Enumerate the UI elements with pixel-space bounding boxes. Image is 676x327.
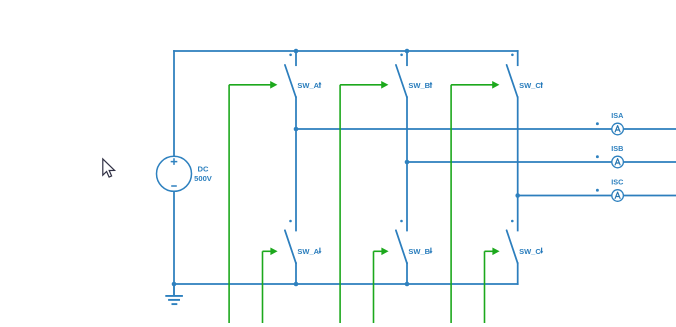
gate wire SW_B_up vertical — [339, 85, 341, 323]
svg-text:SW_C: SW_C — [519, 247, 541, 256]
wire leg C middle — [517, 97, 519, 230]
switch SW_C_up blade — [507, 65, 518, 97]
svg-text:SW_B: SW_B — [408, 247, 430, 256]
switch SW_B_up blade — [396, 65, 407, 97]
svg-text:ISC: ISC — [611, 177, 624, 186]
contact dot SW_C_down — [511, 220, 514, 223]
voltage source plus sign — [171, 158, 178, 165]
gate arrowhead SW_C_down — [492, 248, 499, 256]
gate wire SW_C_up horizontal — [451, 84, 493, 86]
svg-text:SW_A: SW_A — [297, 247, 319, 256]
gate wire SW_A_up vertical — [228, 85, 230, 323]
gate wire SW_A_up horizontal — [229, 84, 271, 86]
svg-text:ISA: ISA — [611, 111, 624, 120]
wire leg A bottom pin — [295, 263, 297, 284]
switch SW_A_up blade — [285, 65, 296, 97]
gate wire SW_C_down horizontal — [485, 250, 493, 252]
svg-text:500V: 500V — [194, 174, 213, 183]
wire bottom rail — [174, 283, 518, 285]
up-arrow glyph of label SW_B_up — [429, 82, 432, 88]
gate arrowhead SW_A_down — [270, 248, 277, 256]
gate wire SW_B_up horizontal — [340, 84, 382, 86]
svg-text:SW_C: SW_C — [519, 81, 541, 90]
wire phase B output — [407, 161, 676, 163]
contact dot SW_A_up — [289, 54, 292, 57]
switch SW_C_down blade — [507, 230, 518, 263]
ammeter ISC letter — [615, 192, 620, 198]
ground symbol — [165, 284, 183, 304]
wire leg B middle — [406, 97, 408, 230]
contact dot SW_C_up — [511, 54, 514, 57]
svg-text:DC: DC — [198, 165, 209, 174]
polarity dot ISB — [596, 155, 599, 158]
wire leg B bottom pin — [406, 263, 408, 284]
ammeter ISA letter — [615, 126, 620, 132]
gate arrowhead SW_A_up — [270, 81, 277, 89]
gate wire SW_B_down vertical — [373, 251, 375, 323]
svg-text:SW_A: SW_A — [297, 81, 319, 90]
gate arrowhead SW_B_down — [381, 248, 388, 256]
wire left drop to source — [173, 51, 175, 156]
svg-text:SW_B: SW_B — [408, 81, 430, 90]
down-arrow glyph of label SW_A_down — [318, 248, 321, 254]
wire leg A middle — [295, 97, 297, 230]
junction top rail A — [294, 49, 299, 54]
gate wire SW_C_down vertical — [484, 251, 486, 323]
junction bottom rail B — [405, 282, 410, 287]
contact dot SW_A_down — [289, 220, 292, 223]
mouse cursor — [103, 159, 115, 177]
wire phase A output — [296, 128, 676, 130]
gate wire SW_A_down horizontal — [263, 250, 271, 252]
wire leg C bottom pin — [517, 263, 519, 284]
junction phase A midpoint — [294, 127, 299, 132]
wire phase C output — [518, 195, 676, 197]
svg-text:ISB: ISB — [611, 144, 623, 153]
gate wire SW_B_down horizontal — [374, 250, 382, 252]
switch SW_B_down blade — [396, 230, 407, 263]
junction bottom rail ground — [172, 282, 177, 287]
ammeter ISC circle — [612, 190, 624, 202]
up-arrow glyph of label SW_A_up — [318, 82, 321, 88]
polarity dot ISA — [596, 122, 599, 125]
voltage source minus sign — [171, 185, 177, 187]
contact dot SW_B_up — [400, 54, 403, 57]
wire source to bottom rail — [173, 191, 175, 284]
wire leg C top stub — [517, 51, 519, 65]
ammeter ISB circle — [612, 156, 624, 168]
junction phase C midpoint — [515, 193, 520, 198]
junction bottom rail A — [294, 282, 299, 287]
contact dot SW_B_down — [400, 220, 403, 223]
gate wire SW_C_up vertical — [450, 85, 452, 323]
down-arrow glyph of label SW_C_down — [540, 248, 543, 254]
gate wire SW_A_down vertical — [262, 251, 264, 323]
switch SW_A_down blade — [285, 230, 296, 263]
wire leg B top stub — [406, 51, 408, 65]
polarity dot ISC — [596, 189, 599, 192]
gate arrowhead SW_B_up — [381, 81, 388, 89]
wire top rail — [174, 50, 518, 52]
ammeter ISB letter — [615, 159, 620, 165]
down-arrow glyph of label SW_B_down — [429, 248, 432, 254]
ammeter ISA circle — [612, 123, 624, 135]
up-arrow glyph of label SW_C_up — [540, 82, 543, 88]
voltage source V1 circle — [157, 156, 192, 191]
junction phase B midpoint — [405, 160, 410, 165]
wire leg A top stub — [295, 51, 297, 65]
junction top rail B — [405, 49, 410, 54]
gate arrowhead SW_C_up — [492, 81, 499, 89]
